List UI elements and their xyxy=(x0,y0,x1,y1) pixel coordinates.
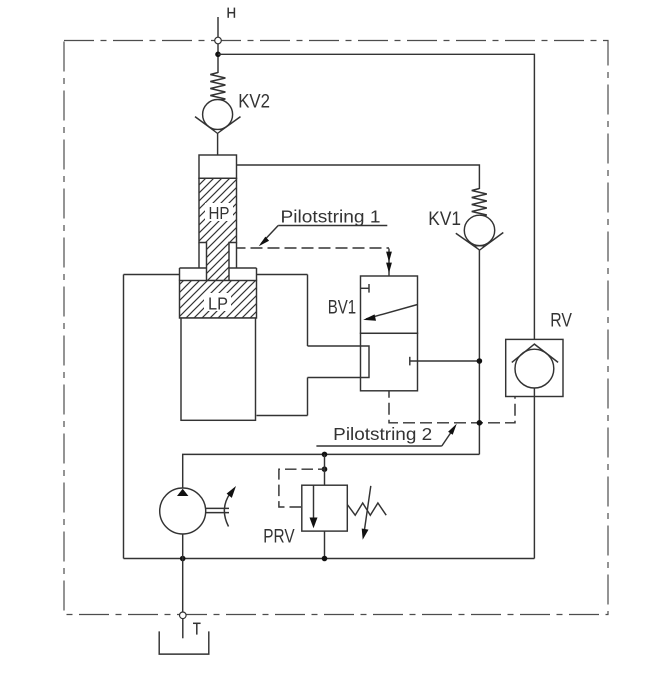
RV seat xyxy=(512,344,558,362)
valve BV1 top position box xyxy=(361,276,418,333)
LP housing left riser xyxy=(123,275,125,559)
junction PRV feed on rail xyxy=(322,452,328,458)
RV ball xyxy=(515,349,554,388)
BV1 blocked port (bottom box) xyxy=(409,357,411,366)
wire PRV feeder xyxy=(324,454,326,485)
KV1 poppet triangle xyxy=(475,246,485,250)
junction below H xyxy=(215,52,221,58)
svg-text:HP: HP xyxy=(209,203,230,223)
pump xyxy=(160,488,206,534)
wire pump suction xyxy=(182,534,184,612)
HP cylinder cap xyxy=(199,155,237,178)
PRV adjust arrow xyxy=(364,486,371,533)
svg-text:BV1: BV1 xyxy=(328,297,356,319)
BV1 pilot actuator arrows xyxy=(388,249,390,277)
KV2 seat xyxy=(195,117,241,134)
tank T xyxy=(159,631,209,654)
BV1 blocked port (top box) xyxy=(361,287,370,289)
wire PRV outlet xyxy=(324,531,326,558)
wire LP port bracket to BV1 xyxy=(308,346,370,378)
PRV spring xyxy=(347,503,386,515)
junction BV1/KV1 xyxy=(477,358,483,364)
LP label mask xyxy=(204,293,231,311)
node H label xyxy=(228,8,234,18)
check valve KV2 spring xyxy=(210,73,225,101)
check valve RV body xyxy=(506,339,563,396)
svg-text:Pilotstring 1: Pilotstring 1 xyxy=(281,206,381,226)
svg-text:KV1: KV1 xyxy=(428,208,461,230)
check valve KV1 ball xyxy=(464,215,494,245)
enclosure boundary (dash-dot frame) xyxy=(64,41,608,615)
svg-text:KV2: KV2 xyxy=(238,91,270,113)
LP piston (hatched) xyxy=(180,281,257,319)
check valve KV1 spring xyxy=(472,189,487,217)
T label xyxy=(193,623,201,634)
svg-text:PRV: PRV xyxy=(263,526,294,548)
wire H stem xyxy=(217,17,219,73)
KV2 poppet triangle xyxy=(213,130,223,134)
svg-text:Pilotstring 2: Pilotstring 2 xyxy=(333,424,432,444)
HP piston and rod (hatched) xyxy=(199,178,237,280)
check valve KV2 ball xyxy=(203,100,233,130)
BV1 flow arrow (top box) xyxy=(366,305,418,319)
valve BV1 bottom position box xyxy=(361,333,418,391)
junction pilot 2 xyxy=(477,420,483,426)
HP cylinder walls xyxy=(198,243,200,269)
pump rotation arrow xyxy=(224,494,230,527)
svg-text:LP: LP xyxy=(208,294,228,314)
KV1 seat xyxy=(456,233,504,251)
junction PRV outlet xyxy=(322,556,328,562)
wire KV1 column down xyxy=(478,250,480,454)
leader arrow to pilot line 1 xyxy=(261,226,278,244)
port T (open circle on boundary) xyxy=(180,612,187,619)
pump shaft xyxy=(206,507,229,509)
LP housing bottom right xyxy=(257,415,308,417)
LP housing top lines xyxy=(124,274,180,276)
HP label mask xyxy=(205,203,233,221)
LP cylinder body xyxy=(181,318,256,420)
port H (open circle on boundary) xyxy=(215,37,222,44)
PRV flow arrow xyxy=(313,485,315,520)
pilot line Pilotstring 2 (dashed) xyxy=(389,391,515,423)
wire top rail to RV column xyxy=(218,54,534,344)
wire RV outlet down xyxy=(533,388,535,559)
LP housing right wall segments xyxy=(307,275,309,347)
wire BV1 to KV1 column xyxy=(410,360,480,362)
svg-text:RV: RV xyxy=(550,309,572,331)
junction pump outlet xyxy=(180,556,186,562)
junction PRV pilot tap xyxy=(322,466,328,472)
wire to tank xyxy=(182,619,184,639)
wire pump pressure rail xyxy=(183,454,480,488)
wire bottom rail xyxy=(124,558,535,560)
pilot line Pilotstring 1 (dashed) xyxy=(237,247,390,249)
LP piston flange xyxy=(180,267,207,269)
wire HP cap to KV1 xyxy=(237,165,480,189)
PRV pilot (dashed) xyxy=(279,469,325,507)
valve PRV body xyxy=(302,485,348,531)
wire KV2 to HP cap xyxy=(217,133,219,155)
leader arrow to pilot line 2 xyxy=(442,427,455,447)
